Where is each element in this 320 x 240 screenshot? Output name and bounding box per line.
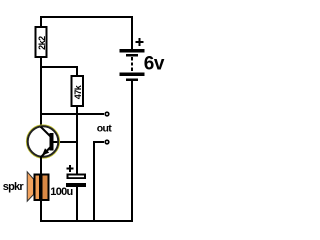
svg-text:spkr: spkr [3, 181, 25, 193]
svg-text:100u: 100u [50, 186, 72, 198]
svg-text:2k2: 2k2 [37, 36, 47, 50]
svg-text:6v: 6v [144, 53, 165, 74]
svg-text:47k: 47k [73, 84, 83, 99]
svg-text:out: out [97, 123, 112, 135]
